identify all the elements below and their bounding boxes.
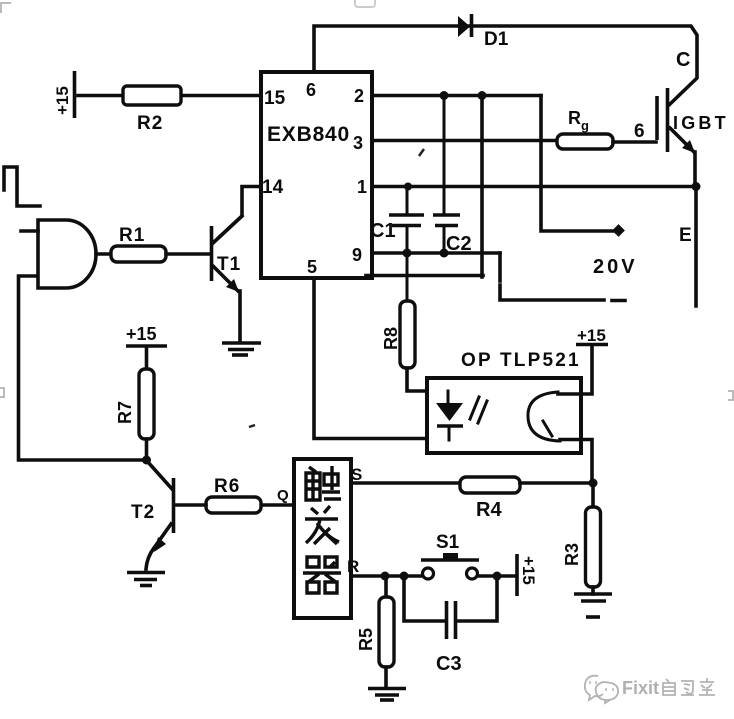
svg-text:C2: C2	[446, 233, 472, 255]
svg-text:+15: +15	[577, 326, 606, 345]
svg-text:R7: R7	[115, 401, 135, 424]
svg-text:T1: T1	[217, 254, 241, 275]
svg-text:2: 2	[354, 86, 364, 106]
svg-text:R8: R8	[381, 327, 401, 350]
svg-text:15: 15	[264, 88, 286, 109]
svg-text:R: R	[347, 557, 359, 576]
svg-text:EXB840: EXB840	[267, 123, 350, 146]
svg-text:IGBT: IGBT	[673, 113, 729, 133]
svg-text:S: S	[351, 465, 362, 484]
svg-text:3: 3	[353, 133, 363, 153]
svg-text:E: E	[679, 225, 692, 246]
svg-text:1: 1	[357, 177, 367, 197]
svg-text:5: 5	[307, 257, 317, 277]
svg-text:S1: S1	[436, 532, 460, 553]
svg-text:6: 6	[306, 80, 316, 100]
svg-text:R4: R4	[476, 499, 502, 521]
svg-text:20V: 20V	[593, 256, 638, 278]
svg-text:g: g	[581, 118, 589, 133]
svg-text:+15: +15	[126, 324, 157, 344]
svg-text:9: 9	[352, 245, 362, 265]
svg-text:R: R	[568, 108, 581, 128]
svg-text:T2: T2	[131, 502, 155, 523]
svg-text:+15: +15	[53, 86, 72, 115]
svg-text:6: 6	[634, 121, 645, 142]
svg-text:Fixit: Fixit	[622, 678, 659, 698]
svg-text:OP TLP521: OP TLP521	[461, 350, 581, 371]
svg-text:R6: R6	[214, 476, 240, 497]
svg-text:14: 14	[262, 177, 284, 198]
svg-text:+15: +15	[519, 556, 538, 585]
svg-text:D1: D1	[484, 29, 509, 50]
svg-text:C: C	[676, 49, 690, 71]
svg-text:R1: R1	[119, 225, 145, 246]
svg-text:R2: R2	[137, 113, 163, 134]
svg-text:C1: C1	[370, 220, 396, 242]
svg-text:R5: R5	[356, 628, 376, 651]
svg-text:Q: Q	[277, 487, 289, 504]
svg-text:C3: C3	[436, 653, 462, 675]
svg-text:R3: R3	[562, 543, 582, 566]
